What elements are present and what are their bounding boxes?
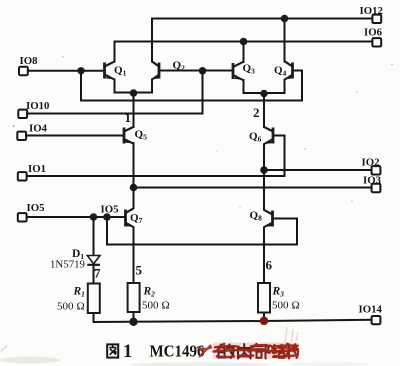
terminal square IO10 [18, 110, 27, 118]
caption hanzi bu (red-scribbled) [255, 345, 270, 359]
red strike over 96 [197, 345, 212, 357]
wire R2 bottom [133, 312, 135, 322]
svg-text:R2: R2 [143, 286, 156, 299]
svg-text:IO3: IO3 [363, 175, 382, 187]
wire rail2 IO6 [115, 42, 373, 62]
svg-text:IO5: IO5 [27, 202, 45, 214]
wire IO1 to Q6 base [26, 136, 285, 177]
wire IO2 to Q6 emitter [264, 169, 372, 171]
svg-text:IO8: IO8 [20, 55, 39, 67]
wire IO4 to Q5 base [25, 135, 124, 137]
svg-text:Q4: Q4 [274, 65, 287, 78]
svg-text:500: 500 [272, 300, 289, 312]
svg-text:IO5: IO5 [101, 204, 119, 216]
svg-text:Ω: Ω [292, 300, 300, 312]
svg-text:1: 1 [123, 342, 132, 362]
node 1 emitter junction [130, 89, 138, 97]
wire Q1-Q2 emitter bus [115, 80, 153, 93]
transistor Q2 [152, 61, 160, 79]
transistor Q7 [125, 208, 134, 227]
svg-text:Q3: Q3 [243, 63, 256, 76]
wire IO8 to Q1 base [27, 70, 104, 72]
wire node1 to Q5 collector [133, 93, 135, 127]
caption hanzi gou (red-scribbled) [286, 344, 298, 358]
wire Q5 emitter to Q7 collector [133, 143, 135, 208]
resistor R2 [128, 283, 140, 312]
node 2 emitter junction [260, 90, 268, 98]
svg-text:1N5719: 1N5719 [50, 260, 85, 271]
wire Q8 emitter to R3 [263, 228, 265, 284]
red scribble strikes over caption [214, 344, 299, 357]
svg-text:IO14: IO14 [359, 304, 383, 316]
svg-text:Q7: Q7 [130, 212, 143, 225]
wire IO5 to Q7 base [26, 216, 126, 218]
transistor Q6 [264, 127, 273, 145]
node rail1/Q4 junction [281, 15, 289, 23]
svg-text:IO10: IO10 [26, 100, 49, 112]
wire bottom rail to IO14 [94, 320, 373, 322]
wire Q7 emitter to R2 [133, 228, 135, 284]
terminal square IO5 [18, 213, 27, 221]
wire Q7-Q8 base link [107, 217, 297, 245]
diode D1 [87, 256, 100, 265]
svg-text:6: 6 [266, 258, 273, 273]
wire IO3 to Q5 emitter column [134, 187, 373, 189]
speckle dots [13, 125, 15, 127]
wire Q4 collector riser [284, 19, 286, 62]
terminal square IO14 [372, 316, 381, 324]
node IO5/base-link junction [103, 213, 111, 221]
transistor Q5 [124, 127, 134, 144]
wire R1 bottom [93, 313, 95, 322]
svg-text:IO2: IO2 [362, 156, 380, 168]
node IO2/Q6 emitter junction [260, 166, 268, 174]
terminal square IO4 [17, 132, 26, 140]
terminal square IO8 [19, 67, 28, 75]
svg-text:500: 500 [142, 300, 159, 312]
svg-text:IO6: IO6 [364, 26, 383, 38]
transistor Q3 [233, 62, 243, 80]
svg-text:IO4: IO4 [29, 122, 48, 134]
svg-text:Ω: Ω [77, 301, 85, 313]
svg-text:2: 2 [253, 105, 260, 120]
caption hanzi nei (red-scribbled) [238, 344, 251, 359]
node IO3/Q5-Q7 junction [130, 184, 138, 192]
svg-text:Q6: Q6 [249, 131, 262, 144]
svg-text:Ω: Ω [162, 300, 170, 312]
svg-text:Q8: Q8 [250, 210, 263, 223]
red tint over scribbled caption [213, 343, 299, 360]
wire node2 to Q6 collector [263, 94, 265, 128]
svg-text:R3: R3 [272, 286, 285, 299]
node R2/rail junction [129, 318, 137, 326]
transistor Q4 [285, 61, 293, 79]
terminal square IO2 [372, 166, 381, 174]
terminal square IO3 [372, 184, 381, 192]
svg-text:5: 5 [136, 263, 143, 278]
caption hanzi de (red-scribbled) [218, 345, 234, 359]
caption hanzi tu (figure) [107, 344, 118, 357]
caption hanzi jie (red-scribbled) [273, 345, 286, 358]
svg-text:IO1: IO1 [28, 163, 46, 175]
svg-text:IO12: IO12 [360, 5, 383, 17]
wire Q2 base to Q3 base [159, 70, 233, 72]
svg-text:1: 1 [125, 110, 132, 125]
wire rail1 IO12 top [152, 19, 373, 62]
wire Q6 emitter to Q8 collector [263, 145, 265, 210]
terminal square IO12 [372, 15, 381, 23]
wire Q3 collector riser [243, 42, 245, 63]
svg-text:R1: R1 [73, 286, 85, 299]
terminal square IO1 [18, 172, 27, 180]
terminal square IO6 [372, 38, 381, 46]
wire cross-couple IO8 to Q4 base [81, 71, 302, 101]
resistor R1 [88, 284, 100, 314]
node IO8/cross-couple junction [77, 67, 84, 74]
node rail2/Q3 junction [240, 38, 248, 46]
svg-text:Q1: Q1 [114, 65, 127, 78]
wire IO10 riser to Q2/Q3 bases [26, 71, 203, 114]
transistor Q8 [264, 210, 273, 228]
diode D1 cathode lead to R1 [93, 265, 95, 284]
transistor Q1 [105, 61, 115, 79]
wire D1 anode [93, 217, 95, 256]
svg-text:Q2: Q2 [173, 60, 186, 73]
faint red streaks above caption [285, 327, 298, 343]
node Q2-Q3 base junction [199, 67, 207, 75]
node IO5/D1 junction [90, 213, 98, 221]
svg-text:MC1496: MC1496 [150, 342, 205, 361]
svg-text:500: 500 [57, 301, 74, 313]
node R3/rail junction (dark red) [260, 317, 269, 326]
svg-text:7: 7 [94, 266, 101, 281]
wire Q3-Q4 emitter bus [244, 80, 285, 94]
resistor R3 [258, 283, 270, 313]
svg-text:Q5: Q5 [135, 129, 148, 142]
wire R3 bottom [263, 313, 265, 322]
